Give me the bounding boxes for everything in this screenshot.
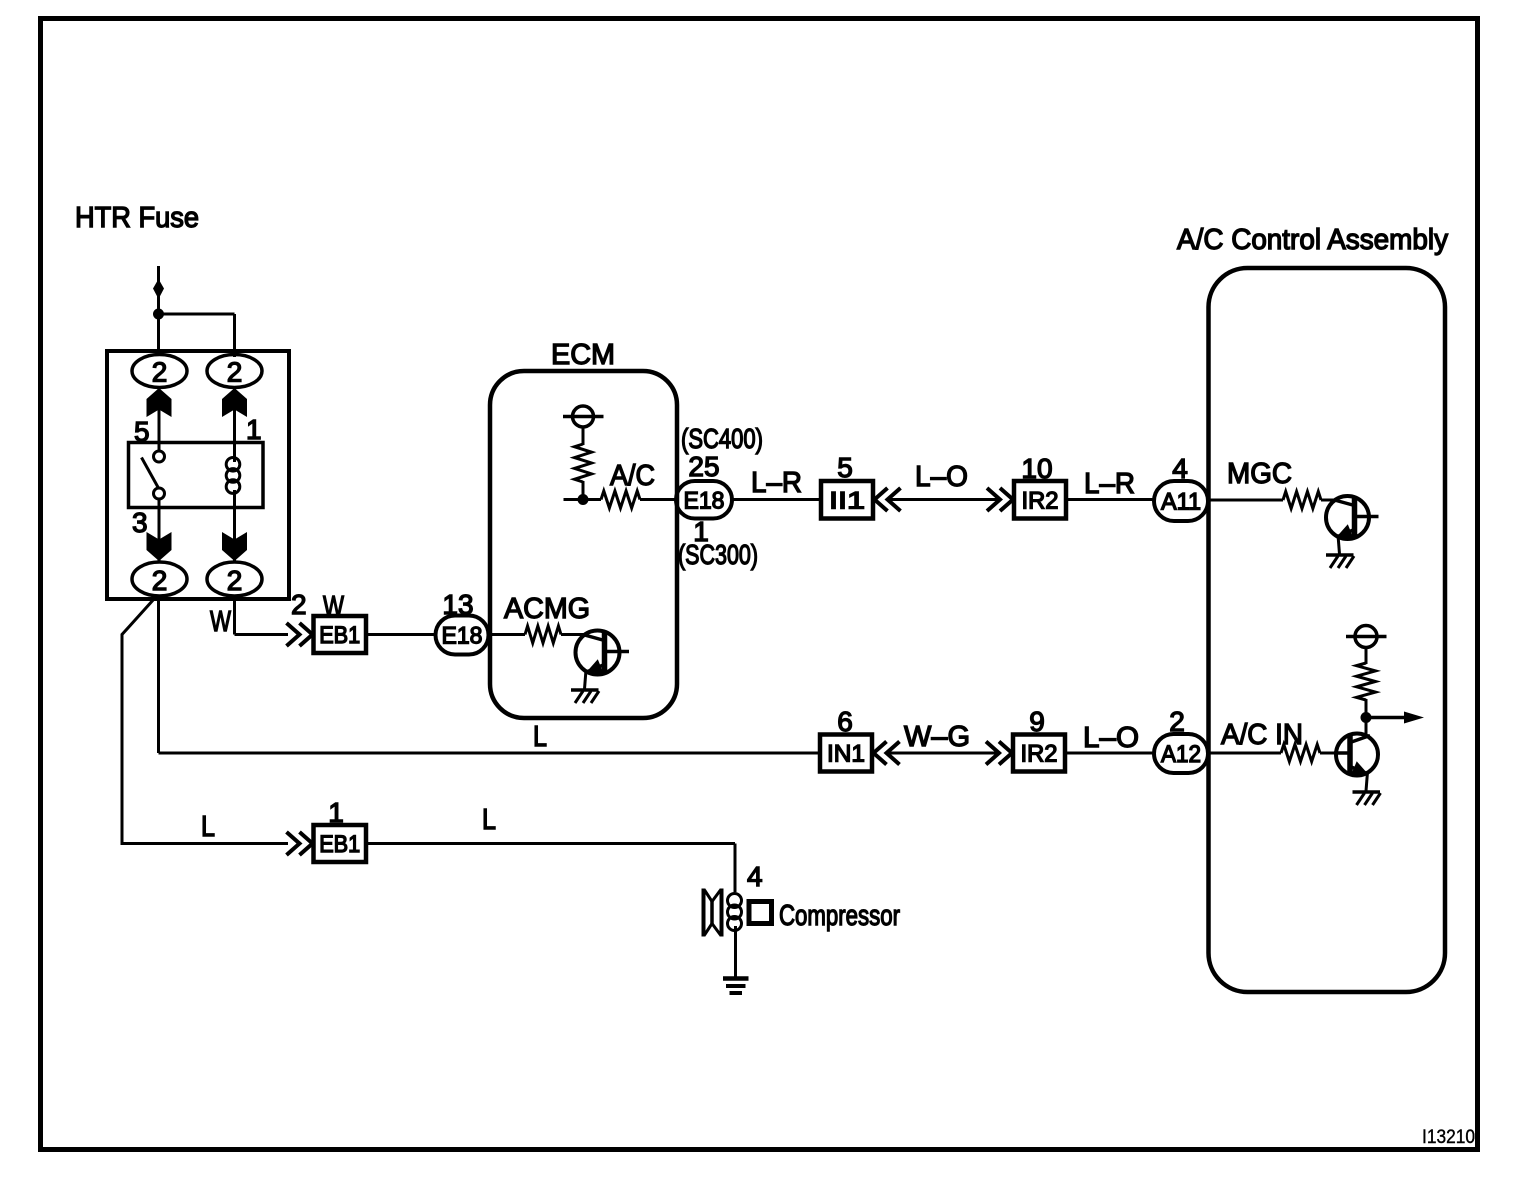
label L-O (1) [915, 461, 968, 493]
pin label 5 [134, 416, 150, 447]
node junction dot (ECM) [578, 494, 589, 505]
pin label 3 [132, 507, 148, 538]
label A/C [610, 460, 655, 492]
relay inner box [129, 443, 264, 508]
connector EB1 lower [314, 825, 367, 862]
terminal oval 2 bottom-right [207, 562, 262, 596]
terminal oval 2 bottom-left [132, 562, 187, 596]
pin label 2 (A12) [1169, 706, 1185, 737]
stub wire left (ECM internal) [564, 498, 584, 501]
label L (left) [201, 811, 215, 843]
relay switch contact top [154, 451, 165, 462]
wire E18 pin25 to II1 (L-R) [732, 498, 821, 501]
svg-text:L–R: L–R [1084, 468, 1135, 500]
svg-text:(SC300): (SC300) [678, 539, 758, 570]
resistor MGC [1283, 492, 1321, 509]
wire A11 to resistor MGC [1208, 499, 1283, 502]
pin label 9 (IR2 row2) [1029, 706, 1045, 737]
arrowhead on feed wire [153, 279, 164, 299]
wire from HTR fuse (down feed) [157, 266, 160, 355]
connector A11 [1154, 481, 1208, 521]
label MGC [1227, 458, 1292, 490]
pin label 2 (EB1) [291, 589, 307, 620]
relay switch blade [142, 458, 160, 490]
connector II1 [821, 481, 873, 519]
connector IN1 [820, 735, 872, 772]
wire E18 pin13 to resistor [489, 633, 526, 636]
resistor A/C IN [1281, 745, 1320, 762]
compressor clutch coil [728, 894, 742, 979]
transistor Q2 MGC [1326, 496, 1379, 539]
relay outer box [107, 351, 289, 599]
svg-text:EB1: EB1 [319, 622, 360, 649]
svg-text:A/C IN: A/C IN [1221, 719, 1303, 751]
svg-text:L–R: L–R [751, 467, 802, 499]
label A/C Control Assembly [1177, 224, 1448, 256]
svg-text:L–O: L–O [1083, 722, 1139, 754]
svg-text:4: 4 [747, 861, 763, 892]
svg-text:L: L [201, 811, 215, 843]
chevron connector into IR2 row1 [987, 488, 1013, 511]
ECM box [490, 371, 677, 718]
svg-text:L–O: L–O [915, 461, 968, 493]
relay coil [226, 452, 240, 500]
wire jog to relay pin 1 [159, 314, 235, 357]
svg-text:1: 1 [246, 414, 262, 445]
figure number I13210 [1422, 1127, 1475, 1148]
wire resistor to transistor Q1 [561, 633, 585, 636]
svg-text:ECM: ECM [551, 339, 615, 371]
svg-text:IR2: IR2 [1021, 741, 1058, 768]
svg-text:EB1: EB1 [319, 831, 360, 858]
wire A12 to resistor [1208, 752, 1281, 755]
connector E18 pin25 [676, 481, 732, 519]
wire Q2 emitter to ground [1338, 535, 1340, 554]
pin label 1 [246, 414, 262, 445]
svg-text:2: 2 [291, 589, 307, 620]
pin label 4 (A11) [1172, 453, 1188, 484]
svg-text:HTR Fuse: HTR Fuse [75, 202, 199, 234]
label W (at relay) [210, 606, 231, 638]
wire IR2 to A12 (L-O) [1065, 752, 1155, 755]
svg-text:2: 2 [227, 357, 243, 388]
chevron connector into IR2 row2 [986, 742, 1012, 765]
earth ground (compressor) [723, 979, 749, 994]
relay switch contact bottom [154, 488, 165, 499]
terminal oval 2 top-right [207, 355, 262, 388]
wire relay pin1 vertical [233, 387, 236, 459]
wire relay pin3 vertical [158, 499, 161, 562]
label A/C IN [1221, 719, 1303, 751]
pin label 1 (EB1 lower) [328, 797, 344, 828]
pin label 25 [688, 451, 719, 482]
connector E18 pin13 [436, 616, 489, 655]
svg-text:2: 2 [152, 565, 168, 596]
svg-text:5: 5 [837, 452, 853, 483]
pin label 6 (IN1) [837, 706, 853, 737]
wire resistor to Q3 base [1320, 752, 1337, 755]
svg-text:A/C: A/C [610, 460, 655, 492]
label HTR Fuse [75, 202, 199, 234]
wire relay to EB1 (W) [235, 596, 289, 635]
svg-text:E18: E18 [684, 488, 725, 515]
svg-text:ACMG: ACMG [504, 593, 590, 625]
svg-text:3: 3 [132, 507, 148, 538]
label (SC400) [681, 423, 763, 454]
terminal oval 2 top-left [132, 355, 187, 388]
label (SC300) [678, 539, 758, 570]
chassis ground (Q1) [571, 690, 599, 703]
label L-O (2) [1083, 722, 1139, 754]
label L (below ECM) [533, 721, 547, 753]
wire resistor to node (assembly) [1365, 699, 1368, 736]
wire Q3 emitter to ground [1366, 772, 1368, 791]
label W-G [904, 721, 970, 753]
wire Q1 emitter to ground [585, 670, 587, 689]
label W (wire color) [323, 591, 344, 623]
label ECM [551, 339, 615, 371]
wire relay to lower run (diagonal) [122, 599, 288, 844]
svg-text:I13210: I13210 [1422, 1127, 1475, 1148]
chevron connector after II1 [875, 488, 901, 511]
label Compressor [779, 900, 900, 932]
svg-text:IN1: IN1 [827, 741, 865, 768]
svg-text:IR2: IR2 [1022, 488, 1059, 515]
wire EB1 to E18 pin13 [366, 633, 437, 636]
wire relay coil to bottom oval [233, 500, 236, 562]
pin label 13 [442, 589, 473, 620]
label L (right) [482, 804, 496, 836]
chevron connector after IN1 [874, 742, 900, 765]
resistor ACMG [525, 626, 561, 643]
wire B+ to resistor [582, 427, 585, 445]
pin label 10 (IR2) [1021, 453, 1052, 484]
connector arrow up right [222, 388, 247, 417]
connector arrow down right [222, 532, 247, 561]
wire resistor to transistor Q2 [1321, 499, 1337, 502]
svg-text:W–G: W–G [904, 721, 970, 753]
label ACMG [504, 593, 590, 625]
wire resistor to node [582, 481, 585, 500]
A/C Control Assembly box [1209, 268, 1446, 992]
power symbol B+ (ECM) [563, 406, 604, 427]
compressor connector square [749, 902, 772, 924]
connector IR2 row2 [1013, 735, 1065, 772]
svg-text:W: W [210, 606, 231, 638]
label L-R (2) [1084, 468, 1135, 500]
wire IR2 to A11 (L-R) [1066, 498, 1155, 501]
connector IR2 row1 [1014, 481, 1066, 519]
wire B+ to resistor (assembly) [1365, 647, 1368, 664]
svg-text:L: L [533, 721, 547, 753]
pin label 4 (compressor) [747, 861, 763, 892]
svg-text:2: 2 [227, 565, 243, 596]
signal arrow to internal circuit [1366, 712, 1424, 724]
wire EB1 to compressor [366, 844, 735, 893]
svg-text:(SC400): (SC400) [681, 423, 763, 454]
pin label 1 (SC300) [693, 516, 709, 547]
connector EB1 upper [314, 616, 367, 653]
connector arrow down left [147, 532, 172, 561]
wire IN1 to IR2 (W-G) [888, 752, 1001, 755]
transistor Q3 A/C IN [1334, 734, 1378, 776]
connector A12 [1154, 734, 1208, 773]
svg-text:A12: A12 [1161, 741, 1201, 768]
power symbol B+ (assembly) [1346, 626, 1387, 648]
connector arrow up left [147, 388, 172, 417]
resistor A/C [601, 491, 640, 508]
wire node to resistor A/C [583, 498, 601, 501]
label L-R (1) [751, 467, 802, 499]
svg-text:L: L [482, 804, 496, 836]
junction node [153, 309, 164, 320]
svg-text:MGC: MGC [1227, 458, 1292, 490]
svg-text:25: 25 [688, 451, 719, 482]
chassis ground (Q3) [1353, 792, 1381, 805]
svg-text:2: 2 [152, 357, 168, 388]
wire resistor to E18 pin25 [640, 498, 677, 501]
node junction dot (assembly) [1361, 712, 1372, 723]
chevron connector into EB1 lower [287, 832, 313, 855]
pin label 5 (II1) [837, 452, 853, 483]
wire relay pin5 vertical [158, 387, 161, 452]
svg-text:II1: II1 [829, 488, 865, 515]
svg-text:E18: E18 [442, 623, 483, 650]
resistor pull-up vertical (ECM) [575, 444, 592, 482]
wire II1 to IR2 (L-O) [888, 498, 1001, 501]
svg-text:Compressor: Compressor [779, 900, 900, 932]
svg-text:A11: A11 [1161, 489, 1201, 516]
chassis ground (Q2) [1326, 555, 1354, 568]
compressor clutch magnet core [704, 889, 722, 937]
svg-text:A/C Control Assembly: A/C Control Assembly [1177, 224, 1448, 256]
transistor Q1 ACMG driver [576, 631, 630, 675]
wire relay pin3 to IN1 (long L wire) [159, 596, 822, 753]
chevron connector into EB1 upper [287, 623, 313, 646]
resistor pull-up vertical (assembly) [1357, 663, 1376, 700]
